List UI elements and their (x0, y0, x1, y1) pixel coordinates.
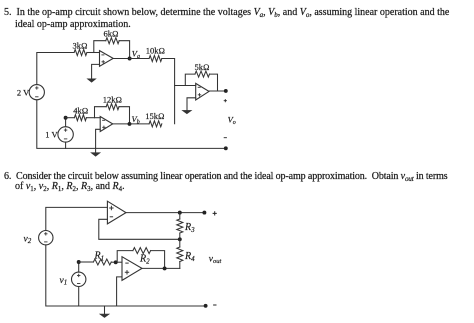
ground (bottom rail) (95, 148, 97, 152)
svg-text:5kΩ: 5kΩ (195, 62, 210, 72)
wire: v1 top stem (78, 262, 80, 272)
wire: R2 down to op-amp B output (151, 251, 165, 269)
resistor 3k (73, 41, 88, 56)
wire: 1V bottom stem (65, 142, 67, 148)
wire: op-amp A output to + terminal (126, 212, 204, 214)
node at v1 top (77, 260, 81, 264)
svg-text:15kΩ: 15kΩ (145, 111, 164, 121)
wire: v2 top to op-amp A noninverting input (46, 207, 108, 230)
wire: op-amp B noninverting input down to rail (117, 277, 122, 306)
resistor 15k (145, 111, 164, 127)
wire: node to 4k (66, 117, 75, 119)
wire: 5k down to U3 output wire (210, 74, 218, 91)
node Va (128, 49, 140, 61)
wire: v1 node to R1 (79, 261, 94, 263)
wire: 3k to op-amp U1 inverting input (87, 52, 100, 54)
wire: bottom rail (37, 100, 226, 149)
svg-text:vout: vout (209, 254, 222, 265)
problem 6 text line 1 (4, 171, 448, 182)
terminal node (+) (202, 211, 206, 215)
resistor 12k (U2 feedback) (103, 95, 122, 110)
terminal node (-) (224, 146, 228, 150)
op-amp U2 (100, 117, 113, 132)
wire: U2 feedback branch up (95, 107, 107, 118)
ground (U3 + input) (182, 110, 191, 113)
svg-text:Vo: Vo (228, 115, 236, 127)
op-amp A (107, 201, 126, 224)
terminal node (-) (204, 304, 208, 308)
wire: U1 noninverting input to ground (92, 64, 100, 79)
label - terminal (213, 304, 216, 306)
wire: R2 feedback branch up (117, 251, 133, 263)
ground (U1 + input) (87, 79, 96, 82)
svg-text:1 V: 1 V (45, 129, 58, 139)
svg-text:R3: R3 (184, 222, 195, 234)
wire: R1 to op-amp B inverting input (111, 261, 122, 263)
resistor R3 (177, 213, 195, 240)
op-amp B (122, 257, 142, 281)
wire: op-amp A inverting input feedback to R3/R4 node (99, 219, 180, 239)
wire: 10k right then down summing vertical to 15k (162, 59, 175, 124)
wire: Va to 10k (130, 58, 150, 60)
svg-text:v2: v2 (24, 234, 32, 245)
svg-text:v1: v1 (60, 276, 68, 287)
terminal node (+) (224, 89, 228, 93)
wire: v1 bottom stem (78, 287, 80, 307)
voltage source V1 (2 V) (17, 85, 44, 100)
label + terminal (213, 211, 217, 215)
node: B output / R4 bottom junction (163, 266, 167, 270)
resistor R1 (93, 250, 111, 265)
svg-text:12kΩ: 12kΩ (103, 95, 122, 105)
voltage source v1 (60, 272, 86, 287)
wire: bottom rail (circuit 2) (46, 245, 206, 306)
resistor R4 (177, 239, 195, 268)
voltage source v2 (24, 231, 54, 245)
problem 5 text line 1 (4, 7, 449, 18)
ground (circuit 2) (104, 306, 106, 314)
wire: U2 output to node Vb (113, 123, 130, 125)
resistor 5k (U3 feedback) (195, 62, 210, 77)
wire: 12k down to node Vb (119, 107, 130, 124)
resistor 10k (146, 46, 165, 62)
wire: 2V source top up and right to 3k resistor (37, 53, 74, 85)
svg-text:6kΩ: 6kΩ (104, 29, 119, 39)
svg-text:R1: R1 (94, 250, 105, 262)
op-amp U3 (196, 83, 209, 100)
voltage source V2 (1 V) (45, 127, 73, 142)
wire: Vb to 15k (130, 123, 150, 125)
label - terminal (224, 137, 227, 139)
op-amp U1 (100, 51, 114, 67)
wire: U1 output to node Va (113, 58, 129, 60)
problem 5 text line 2 (15, 19, 131, 30)
node: R3/R4 junction (178, 237, 182, 241)
wire: U2 noninverting input down to bottom rail (96, 129, 101, 148)
node: B inverting input junction (114, 260, 118, 264)
svg-text:2 V: 2 V (17, 87, 30, 97)
wire: op-amp B output to R4 bottom (142, 267, 180, 269)
resistor R2 (133, 248, 151, 266)
svg-text:R2: R2 (139, 253, 150, 265)
wire: U1 feedback branch up from inverting input (94, 41, 106, 53)
svg-text:R4: R4 (184, 251, 195, 263)
resistor 4k (73, 106, 88, 121)
wire: U3 noninverting input to ground (187, 98, 196, 111)
svg-text:3kΩ: 3kΩ (73, 41, 88, 51)
node at 1V top (64, 116, 68, 120)
problem 6 text line 2 (15, 181, 125, 192)
wire: 4k to op-amp U2 inverting input (86, 117, 100, 119)
svg-text:4kΩ: 4kΩ (73, 106, 88, 116)
wire: summing node to U3 inverting input (175, 85, 196, 87)
wire: U3 output to + terminal (209, 90, 226, 92)
node Vb (128, 114, 140, 126)
wire: 6k down to node Va (119, 41, 129, 59)
label + terminal (224, 99, 227, 102)
svg-text:10kΩ: 10kΩ (146, 46, 165, 56)
resistor 6k (U1 feedback) (104, 29, 120, 44)
wire: U3 feedback branch up (185, 74, 195, 85)
node: output / R3 top (178, 211, 182, 215)
wire: 1V top stem (65, 118, 67, 127)
